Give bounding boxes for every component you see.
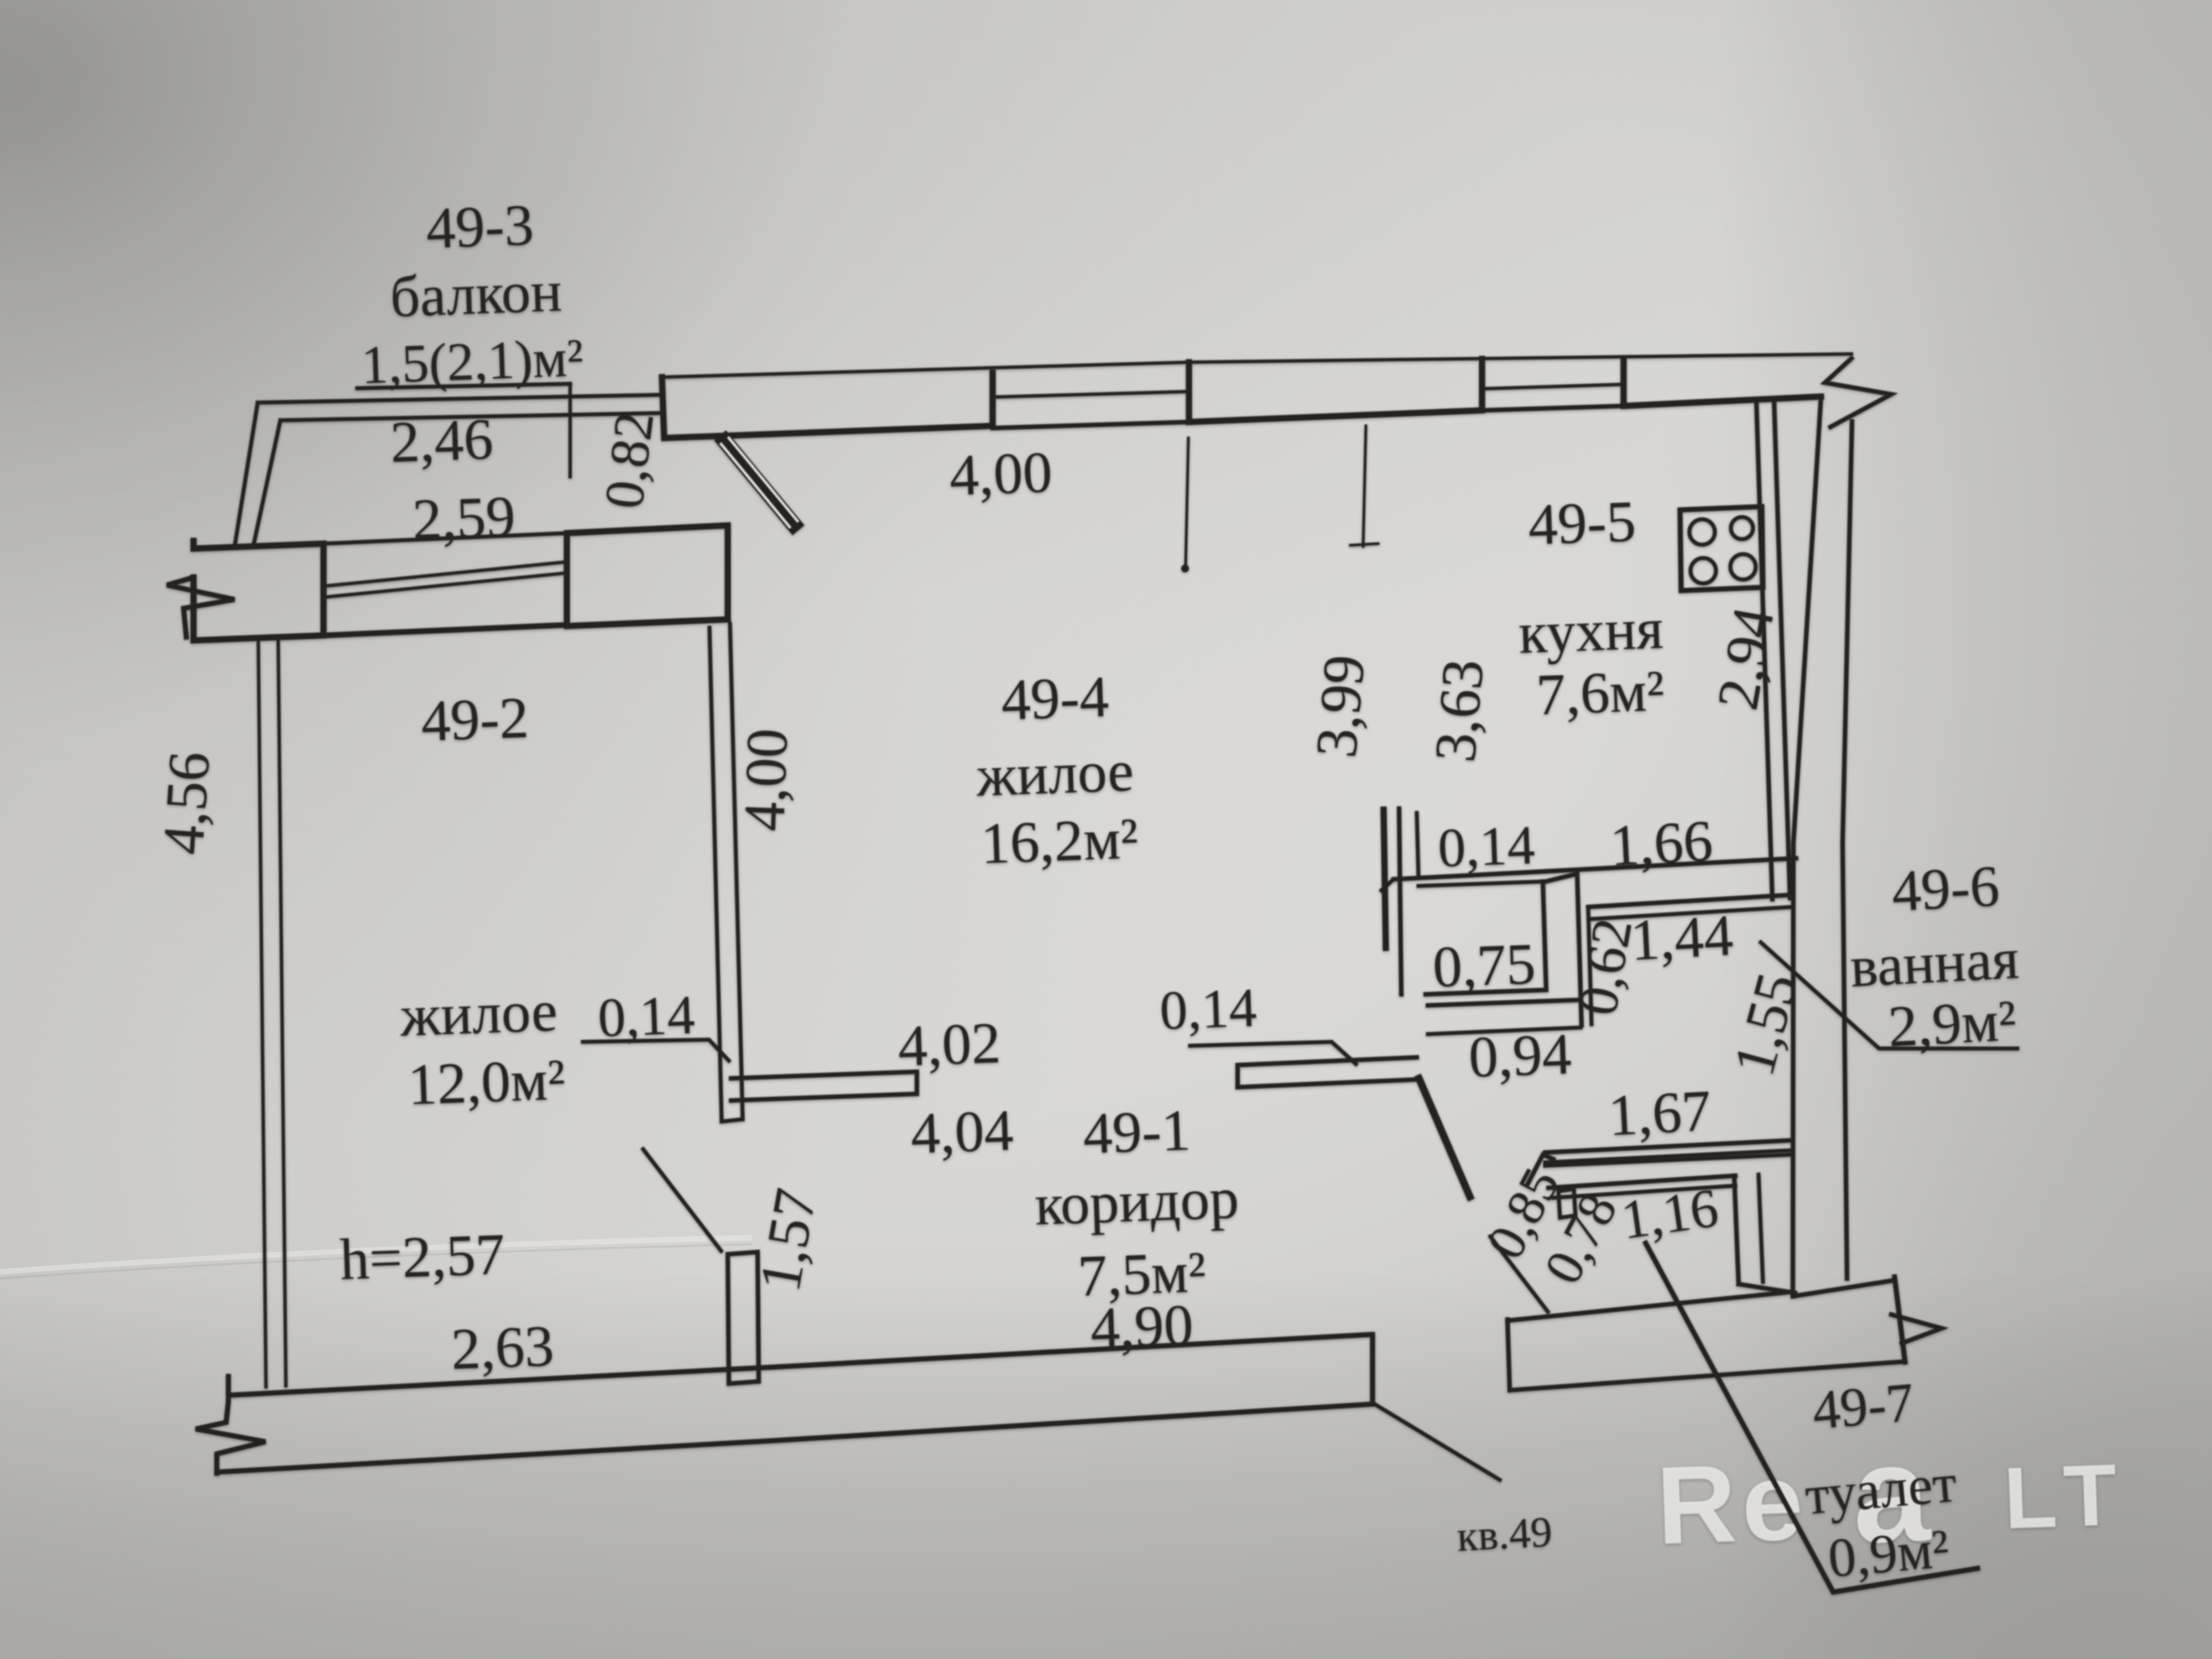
svg-text:4,00: 4,00 xyxy=(948,440,1053,508)
dimension tick balcony xyxy=(568,384,572,477)
top wall pier 3 xyxy=(1624,359,1821,406)
svg-text:балкон: балкон xyxy=(389,259,563,330)
svg-text:2,59: 2,59 xyxy=(411,484,516,552)
toilet north wall line 2 xyxy=(1553,1186,1735,1198)
balcony door leaf (hatched) xyxy=(725,441,794,524)
svg-text:0,94: 0,94 xyxy=(1468,1021,1572,1089)
corridor jog diagonal wall xyxy=(1419,1078,1470,1197)
window 2 inner face xyxy=(1482,406,1624,410)
door leaf room 49-2 xyxy=(643,1149,721,1251)
top wall pier 1 xyxy=(662,373,993,438)
svg-text:49-7: 49-7 xyxy=(1810,1371,1916,1441)
svg-text:49-5: 49-5 xyxy=(1527,489,1637,557)
dimension line 0,94 xyxy=(1428,1027,1580,1034)
watermark Realt xyxy=(1654,1408,2120,1579)
stove symbol xyxy=(1680,507,1763,591)
window 2 frame line xyxy=(1482,384,1624,389)
svg-text:1,55: 1,55 xyxy=(1721,966,1810,1082)
svg-text:жилое: жилое xyxy=(399,978,559,1048)
door jamb block room 49-2 xyxy=(728,1252,759,1384)
niche wall stub 0,14 xyxy=(1384,810,1386,948)
bathroom west wall inner xyxy=(1588,909,1592,1024)
top exterior wall outer face xyxy=(661,354,1851,377)
bottom wall right segment left cap xyxy=(1507,1319,1510,1389)
kitchen east wall line 1 xyxy=(1756,400,1772,899)
toilet south wall xyxy=(1739,1284,1795,1293)
balcony parapet outer line xyxy=(258,395,659,403)
wall break left of room 49-2 window pier xyxy=(167,577,234,637)
niche bottom second line xyxy=(1428,1000,1580,1005)
svg-text:0,14: 0,14 xyxy=(597,984,696,1048)
bottom wall top edge xyxy=(228,1334,1373,1395)
svg-text:3,63: 3,63 xyxy=(1422,657,1496,765)
bathroom north wall inner xyxy=(1589,907,1793,919)
corner wall pier of room 49-2 xyxy=(567,525,728,626)
balcony parapet inner line xyxy=(280,413,659,420)
paper crease left xyxy=(0,1238,752,1272)
window 4,00 frame line xyxy=(993,392,1189,397)
hook at left end of 0,14 underline xyxy=(1381,879,1394,890)
svg-text:1,5(2,1)м²: 1,5(2,1)м² xyxy=(360,328,584,395)
svg-text:0,14: 0,14 xyxy=(1437,814,1536,879)
toilet door leaf xyxy=(1490,1237,1548,1312)
svg-text:L: L xyxy=(2002,1448,2059,1547)
svg-text:e: e xyxy=(1739,1439,1805,1565)
dimension drop line between windows xyxy=(1186,438,1188,565)
window 2,59 inner face xyxy=(324,625,567,635)
svg-text:1,67: 1,67 xyxy=(1606,1078,1712,1148)
svg-text:T: T xyxy=(2062,1446,2119,1545)
svg-text:1,16: 1,16 xyxy=(1618,1177,1722,1251)
bottom wall right segment top edge xyxy=(1507,1292,1792,1321)
svg-text:1,57: 1,57 xyxy=(747,1184,828,1296)
west wall 49-2 outer line xyxy=(258,637,266,1387)
svg-text:2,46: 2,46 xyxy=(389,406,494,474)
bathroom south wall line 1 xyxy=(1545,1140,1792,1152)
svg-text:кв.49: кв.49 xyxy=(1455,1507,1553,1561)
partition 49-2/49-4 east line xyxy=(730,624,743,1119)
partition end cap xyxy=(722,1119,743,1121)
window 2,59 frame line 1 xyxy=(324,562,567,586)
svg-text:3,99: 3,99 xyxy=(1303,653,1377,760)
svg-text:4,00: 4,00 xyxy=(732,727,800,832)
wall break bottom left lightning xyxy=(196,1376,265,1473)
balcony left slant outer xyxy=(234,403,258,547)
top wall pier 2 xyxy=(1189,359,1482,422)
svg-text:2,63: 2,63 xyxy=(450,1313,555,1381)
svg-text:49-3: 49-3 xyxy=(425,192,535,261)
svg-text:49-2: 49-2 xyxy=(420,685,530,754)
niche north-west inner line xyxy=(1417,813,1418,876)
svg-text:туалет: туалет xyxy=(1803,1452,1959,1526)
bottom wall right end cap xyxy=(1370,1334,1375,1404)
svg-text:0,82: 0,82 xyxy=(593,408,665,512)
svg-text:1,44: 1,44 xyxy=(1629,902,1734,973)
svg-text:12,0м²: 12,0м² xyxy=(407,1047,566,1117)
toilet east wall line 1 xyxy=(1734,1176,1739,1284)
dimension drop line kitchen boundary xyxy=(1350,426,1378,546)
leader line to kv.49 xyxy=(1374,1404,1500,1480)
niche bottom line xyxy=(1426,990,1546,994)
toilet door jamb corner xyxy=(1527,1155,1553,1185)
kitchen south face / dimension line 1,66 xyxy=(1394,858,1796,879)
toilet east wall line 2 xyxy=(1759,1175,1763,1282)
svg-text:2,94: 2,94 xyxy=(1705,602,1786,714)
svg-text:4,04: 4,04 xyxy=(910,1098,1014,1166)
toilet door jamb block xyxy=(1558,1189,1575,1218)
svg-text:1,66: 1,66 xyxy=(1608,808,1714,878)
niche east wall xyxy=(1543,881,1546,990)
svg-text:жилое: жилое xyxy=(975,738,1135,808)
svg-text:коридор: коридор xyxy=(1034,1166,1240,1238)
window 2,59 outer line xyxy=(324,533,567,544)
corridor north wall segment A xyxy=(731,1072,917,1100)
underline 0,14 corridor right xyxy=(1190,1042,1356,1064)
underline 0,14 room 49-2 xyxy=(583,1040,729,1061)
right exterior wall inner face xyxy=(1793,397,1821,1296)
svg-text:16,2м²: 16,2м² xyxy=(980,806,1139,876)
toilet 49-7 labels over watermark xyxy=(1646,1243,1978,1592)
leader line to toilet label xyxy=(1646,1243,1978,1592)
svg-text:2,9м²: 2,9м² xyxy=(1887,988,2018,1059)
partition 49-2/49-4 west line xyxy=(709,628,722,1121)
svg-text:4,90: 4,90 xyxy=(1089,1292,1194,1360)
leader line bathroom label xyxy=(1761,942,2017,1048)
window 4,00 inner face xyxy=(993,422,1189,428)
wall break top right xyxy=(1825,358,1891,427)
bottom wall bottom edge xyxy=(217,1404,1373,1472)
wall break bottom right lightning xyxy=(1895,1277,1905,1362)
svg-text:h=2,57: h=2,57 xyxy=(339,1222,506,1292)
niche west wall line xyxy=(1399,808,1401,994)
balcony left slant inner xyxy=(253,420,280,546)
svg-text:49-6: 49-6 xyxy=(1890,853,2001,924)
west wall 49-2 inner line xyxy=(278,636,286,1386)
svg-text:49-1: 49-1 xyxy=(1082,1098,1192,1166)
bottom wall right segment bottom edge xyxy=(1510,1361,1905,1390)
svg-text:R: R xyxy=(1655,1442,1739,1568)
wall pier left of 2,59 window xyxy=(194,541,324,640)
svg-text:кухня: кухня xyxy=(1517,596,1664,665)
window 2,59 frame line 2 xyxy=(324,573,567,597)
svg-text:0,14: 0,14 xyxy=(1159,977,1258,1041)
svg-text:7,6м²: 7,6м² xyxy=(1535,658,1665,727)
svg-text:4,02: 4,02 xyxy=(897,1010,1001,1078)
bathroom north wall outer xyxy=(1588,895,1793,907)
dimension line 1,67 xyxy=(1545,1155,1789,1166)
svg-text:0,75: 0,75 xyxy=(1432,931,1536,999)
svg-text:0,9м²: 0,9м² xyxy=(1826,1517,1952,1589)
right wall inner face bottom turn xyxy=(1793,1280,1895,1296)
bathroom west wall outer xyxy=(1546,874,1582,1025)
bathroom south wall line 2 xyxy=(1545,1150,1792,1162)
underline of balcony label xyxy=(357,384,570,388)
niche top inner line xyxy=(1418,881,1543,886)
right exterior wall outer face xyxy=(1843,421,1852,1279)
svg-text:4,56: 4,56 xyxy=(150,749,222,856)
toilet north wall line 1 xyxy=(1548,1176,1735,1188)
corridor north wall segment B xyxy=(1238,1057,1417,1087)
kitchen east wall line 2 xyxy=(1774,399,1790,898)
svg-text:49-4: 49-4 xyxy=(1000,664,1110,733)
